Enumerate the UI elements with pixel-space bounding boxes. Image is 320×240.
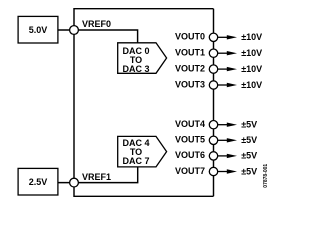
svg-text:VOUT0: VOUT0 bbox=[175, 32, 205, 42]
node VOUT4 with arrow and range ±5V bbox=[175, 119, 257, 130]
node VREF0 bbox=[70, 19, 111, 35]
node VOUT5 with arrow and range ±5V bbox=[175, 135, 257, 146]
voltage source box 2.5V bbox=[18, 168, 58, 195]
node VOUT7 with arrow and range ±5V bbox=[175, 166, 257, 177]
svg-text:±10V: ±10V bbox=[241, 80, 262, 90]
svg-text:VOUT3: VOUT3 bbox=[175, 79, 205, 89]
wire: VREF1 right to DAC 4-7 input bbox=[74, 167, 138, 183]
node VREF1 bbox=[70, 172, 111, 187]
voltage source box 5.0V bbox=[18, 16, 58, 43]
svg-text:±10V: ±10V bbox=[241, 32, 262, 42]
DAC block DAC 4 TO DAC 7 bbox=[118, 136, 167, 167]
wire: right output rail through VOUT nodes bbox=[213, 9, 215, 197]
svg-text:07878-001: 07878-001 bbox=[263, 164, 269, 188]
svg-text:2.5V: 2.5V bbox=[29, 177, 48, 187]
svg-text:±5V: ±5V bbox=[241, 151, 257, 161]
svg-text:VOUT4: VOUT4 bbox=[175, 119, 205, 129]
svg-text:VOUT5: VOUT5 bbox=[175, 135, 205, 145]
wire: 5.0V source to node VREF0 bbox=[58, 29, 74, 31]
wire: VREF0 up and top rail to output rail bbox=[74, 9, 214, 30]
svg-text:VOUT6: VOUT6 bbox=[175, 150, 205, 160]
node VOUT6 with arrow and range ±5V bbox=[175, 150, 257, 161]
svg-text:±5V: ±5V bbox=[241, 135, 257, 145]
wire: 2.5V source to node VREF1 bbox=[58, 182, 74, 184]
node VOUT2 with arrow and range ±10V bbox=[175, 63, 262, 74]
svg-text:±5V: ±5V bbox=[241, 166, 257, 176]
wire: VREF0 right to DAC 0-3 input bbox=[74, 30, 138, 43]
DAC block DAC 0 TO DAC 3 bbox=[118, 43, 167, 74]
node VOUT0 with arrow and range ±10V bbox=[175, 32, 262, 43]
svg-text:±10V: ±10V bbox=[241, 64, 262, 74]
svg-text:DAC 7: DAC 7 bbox=[122, 156, 149, 166]
wire: VREF0 down to node VREF1 bbox=[73, 30, 75, 183]
node VOUT3 with arrow and range ±10V bbox=[175, 79, 262, 90]
svg-text:DAC 3: DAC 3 bbox=[122, 64, 149, 74]
wire: VREF1 down and bottom rail to output rail bbox=[74, 183, 214, 197]
svg-text:VOUT7: VOUT7 bbox=[175, 166, 205, 176]
node VOUT1 with arrow and range ±10V bbox=[175, 48, 262, 59]
svg-text:±10V: ±10V bbox=[241, 48, 262, 58]
svg-text:VREF1: VREF1 bbox=[82, 172, 111, 182]
svg-text:±5V: ±5V bbox=[241, 120, 257, 130]
svg-text:VREF0: VREF0 bbox=[82, 19, 111, 29]
svg-text:5.0V: 5.0V bbox=[29, 25, 48, 35]
svg-text:VOUT1: VOUT1 bbox=[175, 48, 205, 58]
svg-text:VOUT2: VOUT2 bbox=[175, 63, 205, 73]
